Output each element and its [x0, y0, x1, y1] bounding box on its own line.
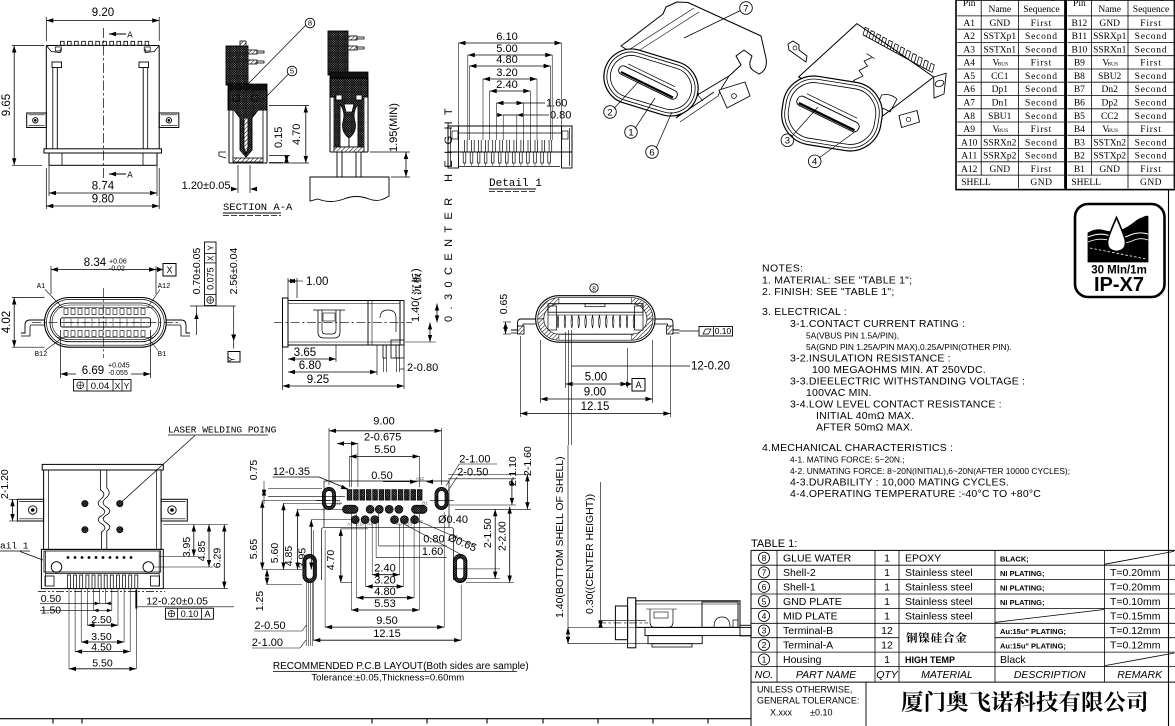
svg-text:-0.055: -0.055 [108, 370, 128, 377]
svg-text:First: First [1031, 59, 1052, 69]
ear tab top-left [788, 41, 807, 62]
svg-text:B10: B10 [356, 522, 365, 527]
svg-text:SSTXn2: SSTXn2 [1093, 138, 1126, 148]
svg-text:SSTXn1: SSTXn1 [983, 45, 1016, 55]
side tails [511, 319, 536, 330]
drawing frame right border [1168, 190, 1170, 726]
svg-text:4: 4 [812, 157, 817, 168]
svg-text:1: 1 [628, 127, 633, 138]
clip detail [318, 310, 340, 338]
callout 8 above [590, 284, 598, 292]
svg-text:2-1.60: 2-1.60 [522, 446, 534, 476]
dim 3.20 [365, 524, 367, 587]
center probe [244, 118, 248, 153]
recommended PCB layout [248, 416, 534, 684]
svg-text:0.04: 0.04 [91, 381, 110, 392]
svg-text:4.70: 4.70 [325, 550, 337, 571]
section arrow A bottom [109, 173, 126, 175]
svg-text:HIGH TEMP: HIGH TEMP [905, 655, 955, 665]
dim 12.15 bottom [312, 530, 314, 640]
svg-text:3: 3 [762, 626, 767, 636]
svg-text:): ) [410, 268, 422, 272]
tongue [61, 318, 151, 327]
svg-text:Second: Second [1135, 99, 1168, 109]
svg-text:0.30CENTER HEIGHT: 0.30CENTER HEIGHT [443, 102, 455, 322]
svg-text:NO.: NO. [755, 669, 774, 681]
centerline below pins [38, 591, 165, 593]
svg-text:1.40(: 1.40( [410, 297, 422, 322]
svg-text:X: X [166, 265, 172, 275]
svg-text:NOTES:: NOTES: [762, 263, 804, 275]
svg-text:B11: B11 [1072, 32, 1088, 42]
svg-text:SSRXn1: SSRXn1 [1093, 45, 1127, 55]
PCB bar [645, 627, 751, 635]
svg-text:4.MECHANICAL CHARACTERISTICS: 4.MECHANICAL CHARACTERISTICS : [762, 442, 953, 454]
svg-text:B12: B12 [333, 501, 342, 506]
svg-text:7: 7 [743, 3, 748, 14]
IP-X7 waterproof logo [1075, 204, 1165, 297]
tongue slot right view [795, 95, 861, 134]
svg-text:B1: B1 [158, 351, 166, 359]
svg-text:3-1.CONTACT CURRENT RATING: 3-1.CONTACT CURRENT RATING : [790, 318, 965, 330]
svg-text:1: 1 [762, 654, 767, 664]
side view [274, 102, 455, 390]
svg-text:Dp2: Dp2 [1102, 99, 1119, 109]
svg-text:NI PLATING;: NI PLATING; [1000, 569, 1044, 578]
side mounting tab [719, 82, 750, 108]
svg-text:A6: A6 [963, 85, 975, 95]
svg-text:12: 12 [881, 625, 893, 637]
dim lines [598, 620, 646, 622]
svg-text:A8: A8 [963, 112, 975, 122]
rear view [498, 284, 733, 445]
svg-text:Y: Y [124, 381, 130, 391]
svg-text:First: First [1140, 19, 1161, 29]
svg-text:X.xxx: X.xxx [770, 708, 793, 718]
svg-text:3. ELECTRICAL :: 3. ELECTRICAL : [762, 306, 847, 318]
centerline [274, 321, 412, 323]
svg-text:0.65: 0.65 [498, 294, 510, 315]
svg-text:1.00: 1.00 [306, 276, 328, 288]
svg-text:TABLE 1:: TABLE 1: [751, 538, 797, 550]
svg-text:SECTION A-A: SECTION A-A [223, 202, 293, 214]
svg-text:0.30((CENTER HEIGHT)): 0.30((CENTER HEIGHT)) [584, 494, 596, 614]
svg-text:7: 7 [762, 568, 767, 578]
clip [650, 609, 673, 627]
svg-text:T=0.12mm: T=0.12mm [1110, 625, 1161, 637]
svg-text:1.40(BOTTOM SHELL OF SHELL): 1.40(BOTTOM SHELL OF SHELL) [554, 456, 566, 618]
legs [336, 152, 338, 177]
callout 7 [740, 2, 753, 15]
svg-text:0.15: 0.15 [273, 127, 285, 148]
svg-text:B2: B2 [1074, 152, 1085, 162]
svg-text:5.00: 5.00 [585, 372, 607, 384]
svg-text:B1: B1 [422, 501, 428, 506]
callout 4 [808, 155, 821, 168]
svg-text:Second: Second [1025, 112, 1058, 122]
svg-text:B9: B9 [1074, 59, 1085, 69]
svg-text:Terminal-A: Terminal-A [783, 640, 833, 652]
shell spring teeth [58, 44, 147, 46]
svg-text:2-0.50: 2-0.50 [254, 620, 285, 632]
svg-text:B1: B1 [1074, 165, 1085, 175]
position frame 0.10 A [166, 608, 214, 619]
svg-text:4.85: 4.85 [196, 541, 208, 562]
mating face rings right view [777, 72, 887, 156]
dim 2-0.675 [350, 444, 352, 487]
svg-text:+0.045: +0.045 [108, 363, 130, 370]
insulator block [228, 90, 267, 157]
svg-text:REMARK: REMARK [1117, 669, 1163, 681]
svg-text:GND: GND [1099, 19, 1120, 29]
PCB with wavy edge [310, 177, 389, 202]
dim 1.60 / 0.80 [497, 102, 524, 104]
side solder feet [21, 320, 45, 333]
parts table TABLE 1 [740, 538, 1175, 726]
svg-text:B5: B5 [1074, 112, 1085, 122]
svg-text:3.65: 3.65 [294, 347, 316, 359]
svg-text:2: 2 [762, 640, 767, 650]
centerlines [102, 288, 104, 358]
svg-text:Y: Y [207, 244, 216, 250]
svg-text:BUS: BUS [997, 128, 1008, 134]
svg-text:6: 6 [762, 582, 767, 592]
svg-text:A11: A11 [961, 152, 977, 162]
top pad row (12) [347, 490, 352, 501]
svg-text:Second: Second [1025, 32, 1058, 42]
body tube [636, 601, 740, 628]
callout 6 [646, 146, 659, 159]
dim 5.50 [349, 456, 351, 487]
svg-text:A12: A12 [416, 476, 425, 481]
svg-text:4-4.OPERATING TEMPERATURE :-: 4-4.OPERATING TEMPERATURE :-40°C TO +80°… [790, 488, 1041, 500]
welding dots [82, 501, 88, 507]
callout 2 [604, 106, 617, 119]
svg-text:3-2.INSULATION RESISTANCE :: 3-2.INSULATION RESISTANCE : [790, 353, 951, 365]
body [288, 301, 400, 346]
svg-text:3.20: 3.20 [374, 575, 395, 587]
svg-text:1.25: 1.25 [254, 591, 266, 612]
svg-text:SSTXp1: SSTXp1 [983, 32, 1016, 42]
svg-text:First: First [1031, 19, 1052, 29]
svg-text:1.60: 1.60 [422, 546, 443, 558]
svg-text:2-0.50: 2-0.50 [457, 467, 488, 479]
svg-text:5.50: 5.50 [374, 444, 395, 456]
outer tube walls [228, 90, 230, 163]
dim 0.50 [410, 480, 417, 484]
mid plate zipper seam [98, 470, 105, 549]
svg-text:B8: B8 [1074, 72, 1085, 82]
svg-text:Black: Black [1000, 654, 1026, 666]
svg-text:SBU2: SBU2 [1098, 72, 1121, 82]
flatness frame [680, 330, 700, 332]
svg-text:A: A [204, 609, 210, 619]
svg-text:A: A [127, 171, 133, 181]
svg-text:0.80: 0.80 [550, 110, 571, 122]
svg-text:B6: B6 [1074, 99, 1085, 109]
svg-text:100VAC MIN.: 100VAC MIN. [806, 387, 872, 399]
right bracket [368, 301, 404, 346]
dia 0.40 / 0.65 [419, 521, 476, 546]
svg-text:First: First [1031, 125, 1052, 135]
dim 9.00 [540, 340, 542, 403]
svg-text:4: 4 [762, 611, 767, 621]
body [44, 470, 162, 549]
svg-text:5.65: 5.65 [248, 539, 260, 560]
svg-text:AFTER 50mΩ MAX.: AFTER 50mΩ MAX. [816, 422, 913, 434]
hanging terminals [557, 315, 559, 328]
svg-text:QTY: QTY [876, 669, 899, 681]
svg-text:T=0.10mm: T=0.10mm [1110, 596, 1161, 608]
svg-text:Second: Second [1025, 138, 1058, 148]
svg-text:A7: A7 [963, 99, 975, 109]
svg-text:0.75: 0.75 [248, 460, 260, 481]
svg-text:Second: Second [1135, 45, 1168, 55]
svg-text:5A(VBUS PIN 1.5A/PIN),: 5A(VBUS PIN 1.5A/PIN), [806, 331, 899, 341]
svg-text:Name: Name [1098, 5, 1121, 15]
body top face [621, 2, 766, 94]
isometric view right (bottom side up) [777, 24, 946, 168]
bottom flange [44, 149, 162, 153]
svg-text:1: 1 [884, 552, 890, 564]
mated contacts [334, 97, 364, 147]
svg-text:9.65: 9.65 [1, 94, 13, 116]
svg-text:5: 5 [290, 67, 294, 76]
dim 2-0.80 [383, 358, 385, 372]
svg-text:B12: B12 [1071, 19, 1087, 29]
svg-text:GND: GND [1030, 178, 1052, 188]
svg-text:SSTXp2: SSTXp2 [1093, 152, 1126, 162]
upper contact row [64, 309, 68, 315]
svg-text:6.10: 6.10 [496, 31, 517, 43]
svg-text:4-1. MATING FORCE: 5~20N.;: 4-1. MATING FORCE: 5~20N.; [790, 455, 905, 465]
terminal windows [233, 95, 239, 101]
svg-text:SSRXp2: SSRXp2 [983, 152, 1017, 162]
svg-text:9.00: 9.00 [584, 387, 606, 399]
svg-text:1.95(MIN): 1.95(MIN) [388, 103, 400, 152]
svg-text:Second: Second [1025, 72, 1058, 82]
svg-text:4-3.DURABILITY : 10,000 MAT: 4-3.DURABILITY : 10,000 MATING CYCLES. [790, 477, 1009, 489]
svg-text:2.40: 2.40 [496, 79, 517, 91]
svg-text:3-3.DIEELECTRIC WITHSTANDING: 3-3.DIEELECTRIC WITHSTANDING VOLTAGE : [790, 376, 1025, 388]
shell outline [45, 46, 47, 149]
svg-text:Pin: Pin [1073, 0, 1086, 9]
svg-text:2-0.675: 2-0.675 [364, 432, 401, 444]
dim 3.65 [282, 347, 284, 390]
svg-text:CC2: CC2 [1101, 112, 1119, 122]
svg-text:CC1: CC1 [991, 72, 1009, 82]
svg-text:GND PLATE: GND PLATE [783, 596, 842, 608]
svg-text:A1: A1 [37, 283, 45, 291]
svg-text:A5: A5 [963, 72, 975, 82]
shell stadium outlines [45, 298, 167, 348]
svg-text:100 MEGAOHMS MIN. AT 250VD: 100 MEGAOHMS MIN. AT 250VDC. [812, 364, 986, 376]
svg-text:A: A [127, 31, 133, 41]
zipper seam [844, 58, 872, 100]
detail dims [459, 42, 562, 44]
svg-text:BLACK;: BLACK; [1000, 554, 1029, 563]
svg-text:4.80: 4.80 [496, 54, 517, 66]
svg-text:Second: Second [1025, 152, 1058, 162]
svg-text:1.60: 1.60 [546, 98, 567, 110]
svg-text:3: 3 [785, 136, 790, 147]
svg-text:+0.06: +0.06 [109, 259, 127, 266]
datum Y flag [228, 352, 240, 363]
svg-text:1: 1 [884, 654, 890, 666]
flange [42, 464, 163, 470]
pins below [383, 345, 386, 358]
footprint outline [322, 527, 331, 580]
svg-text:5.53: 5.53 [374, 598, 395, 610]
drawing frame bottom border [0, 718, 751, 720]
svg-text:Dn2: Dn2 [1102, 85, 1119, 95]
flange [628, 598, 636, 648]
dim 9.20 [45, 17, 47, 41]
svg-text:2-1.00: 2-1.00 [252, 637, 283, 649]
svg-text:Dp1: Dp1 [992, 85, 1009, 95]
callout 5 [287, 66, 297, 76]
svg-text:A2: A2 [963, 32, 975, 42]
svg-text:2.40: 2.40 [374, 563, 395, 575]
svg-text:12.15: 12.15 [373, 628, 401, 640]
svg-text:Second: Second [1135, 112, 1168, 122]
svg-text:SHELL: SHELL [961, 178, 991, 188]
company name [902, 691, 923, 712]
svg-text:Sequence: Sequence [1133, 5, 1169, 15]
svg-text:2-1.20: 2-1.20 [0, 469, 11, 499]
body lower-right edge [676, 94, 699, 118]
svg-text:6.29: 6.29 [212, 548, 224, 569]
tongue slot [617, 64, 678, 100]
svg-text:8.74: 8.74 [92, 181, 115, 193]
svg-text:B4: B4 [1074, 125, 1085, 135]
svg-text:B12: B12 [35, 351, 48, 359]
frame tick marks [52, 719, 54, 724]
svg-text:Pin: Pin [963, 0, 976, 9]
lower shell part [41, 549, 163, 588]
svg-text:Second: Second [1135, 72, 1168, 82]
svg-text:RECOMMENDED P.C.B LAYOUT(Bot: RECOMMENDED P.C.B LAYOUT(Both sides are … [273, 661, 529, 672]
svg-text:2: 2 [607, 107, 612, 118]
notes text block [762, 263, 1070, 501]
svg-text:5.50: 5.50 [92, 658, 113, 670]
svg-text:UNLESS OTHERWISE,: UNLESS OTHERWISE, [757, 685, 852, 695]
svg-text:±0.10: ±0.10 [810, 708, 832, 718]
row3 pads [351, 516, 359, 524]
right block [702, 602, 738, 627]
svg-text:First: First [1140, 125, 1161, 135]
svg-text:GND: GND [1140, 178, 1162, 188]
right mounting tab [159, 113, 179, 128]
front view of receptacle [1, 242, 240, 392]
stems from bottom ovals [306, 583, 308, 647]
svg-text:Mating: Mating [1028, 0, 1056, 2]
svg-text:5A(GND PIN 1.25A/PIN MAX),0.25: 5A(GND PIN 1.25A/PIN MAX),0.25A/PIN(OTHE… [806, 342, 1012, 352]
svg-text:8.34: 8.34 [84, 257, 107, 269]
dim 6.69 [60, 330, 62, 378]
dim 12-0.20 [568, 330, 570, 445]
svg-text:BUS: BUS [1107, 128, 1118, 134]
dim 9.00 top [328, 428, 330, 485]
svg-text:A9: A9 [396, 522, 402, 527]
svg-text:Y: Y [227, 356, 237, 362]
svg-text:8: 8 [308, 19, 312, 28]
svg-text:A12: A12 [961, 165, 978, 175]
position frame 0.04 X Y [74, 380, 132, 392]
right tab [161, 499, 187, 521]
svg-text:T=0.15mm: T=0.15mm [1110, 611, 1161, 623]
svg-text:1.20±0.05: 1.20±0.05 [182, 180, 231, 192]
tolerance block [750, 682, 752, 726]
detail 1 view [448, 31, 572, 192]
svg-text:BUS: BUS [1107, 62, 1118, 68]
section A-A left cut view [182, 18, 315, 215]
svg-text:A1: A1 [347, 522, 353, 527]
svg-text:NI PLATING;: NI PLATING; [1000, 583, 1044, 592]
svg-text:3.95: 3.95 [181, 537, 193, 558]
svg-text:Ø0.40: Ø0.40 [438, 514, 468, 526]
svg-text:Second: Second [1135, 152, 1168, 162]
svg-text:-0.02: -0.02 [109, 266, 125, 273]
svg-text:9.50: 9.50 [376, 615, 397, 627]
svg-text:Stainless steel: Stainless steel [905, 611, 973, 623]
svg-text:T=0.12mm: T=0.12mm [1110, 640, 1161, 652]
svg-text:3.95: 3.95 [297, 548, 309, 569]
svg-text:12: 12 [881, 640, 893, 652]
svg-text:9.00: 9.00 [373, 416, 394, 428]
svg-text:6.80: 6.80 [299, 360, 321, 372]
svg-text:GND: GND [1099, 165, 1120, 175]
svg-text:Second: Second [1135, 138, 1168, 148]
svg-text:8: 8 [592, 285, 596, 292]
svg-text:MATERIAL: MATERIAL [921, 669, 973, 681]
svg-text:DESCRIPTION: DESCRIPTION [1014, 669, 1086, 681]
svg-text:ail 1: ail 1 [0, 541, 29, 552]
wave graphic [1088, 216, 1148, 262]
svg-text:2-1.50: 2-1.50 [482, 518, 494, 548]
svg-text:5: 5 [762, 596, 767, 606]
svg-text:NI PLATING;: NI PLATING; [1000, 598, 1044, 607]
flange [283, 298, 289, 347]
svg-text:X: X [115, 381, 121, 391]
sunk mount side view [554, 445, 751, 648]
section A-A right cut view (mated) [310, 31, 410, 202]
svg-text:6.69: 6.69 [82, 365, 104, 377]
rear shell outlines [536, 296, 655, 343]
svg-text:A3: A3 [963, 45, 975, 55]
svg-text:B7: B7 [1074, 85, 1085, 95]
svg-text:X: X [207, 255, 216, 261]
svg-text:2. FINISH: SEE "TABLE 1";: 2. FINISH: SEE "TABLE 1"; [762, 286, 894, 298]
svg-text:Au:15u" PLATING;: Au:15u" PLATING; [1000, 642, 1066, 651]
svg-text:1: 1 [884, 611, 890, 623]
row2 pads [343, 505, 359, 513]
svg-text:Shell-2: Shell-2 [783, 567, 816, 579]
svg-text:Mating: Mating [1137, 0, 1165, 2]
svg-text:0.075: 0.075 [206, 267, 216, 290]
dim 2.40 [371, 524, 373, 575]
dim 4.02 [12, 297, 45, 299]
dim 8.34 [50, 266, 52, 294]
svg-text:GENERAL TOLERANCE:: GENERAL TOLERANCE: [757, 696, 859, 706]
svg-text:12-0.35: 12-0.35 [273, 466, 310, 478]
dim 9.80 [45, 168, 47, 209]
svg-text:First: First [1140, 165, 1161, 175]
svg-text:A4: A4 [963, 59, 975, 69]
svg-text:4.80: 4.80 [374, 586, 395, 598]
svg-text:0.10: 0.10 [715, 326, 732, 336]
dim 4.80 [356, 514, 358, 598]
